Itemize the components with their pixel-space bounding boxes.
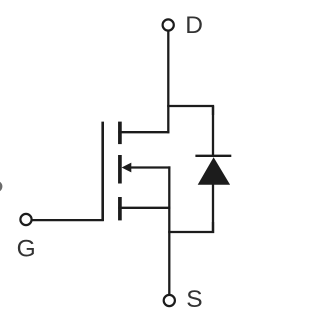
wire body stub [130,166,171,168]
svg-text:S: S [186,286,202,313]
terminal S [164,295,175,306]
mosfet Q1 source channel bar [118,197,122,220]
wire drain lead [167,31,169,134]
mosfet Q1 body channel bar [118,155,122,184]
mosfet Q1 drain channel bar [118,122,122,145]
wire drain stub [118,131,169,133]
wire gate lead [32,219,103,221]
svg-text:G: G [17,235,36,262]
wire diode anode vertical [212,183,214,233]
clipped bullet mark at left edge [0,181,2,192]
wire diode cathode vertical [212,106,214,157]
mosfet Q1 body arrow [122,163,132,173]
svg-text:D: D [185,12,203,39]
diode D1 cathode bar [195,155,231,157]
terminal D [163,19,174,30]
terminal G [20,214,31,225]
wire source stub [118,207,170,209]
wire diode anode connector [168,222,213,232]
diode D1 triangle [198,157,230,185]
mosfet Q1 gate bar [101,122,104,221]
wire body-source vertical [168,166,170,295]
wire drain-diode branch [167,106,213,115]
